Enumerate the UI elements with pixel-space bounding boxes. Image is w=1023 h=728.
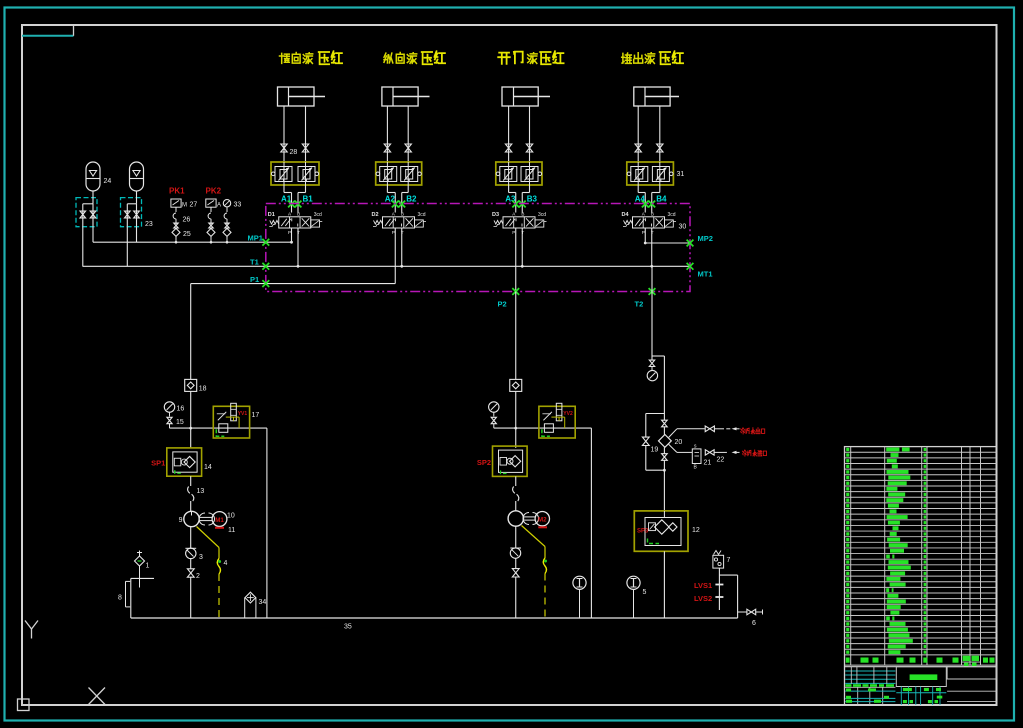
svg-text:M1: M1 xyxy=(215,517,224,524)
svg-text:7: 7 xyxy=(727,557,731,564)
wire level column to tank xyxy=(719,575,737,618)
filter block SP1 (14) xyxy=(151,448,201,476)
cylinder 推出液压缸 xyxy=(634,87,679,106)
unloading relief block (YV2) xyxy=(539,403,575,438)
accumulator shutoff block 1 xyxy=(76,191,97,227)
wire valve4 P to MP2 xyxy=(644,228,647,244)
svg-text:10: 10 xyxy=(227,513,235,520)
pump 9b xyxy=(508,501,523,526)
svg-text:B: B xyxy=(401,212,404,217)
drain valve 6 xyxy=(738,609,763,627)
node B3 xyxy=(527,194,538,203)
svg-text:33: 33 xyxy=(234,201,242,208)
drain line pump1 (4) xyxy=(197,527,228,619)
svg-text:22: 22 xyxy=(717,457,725,464)
shutoff 2b xyxy=(512,558,519,618)
node A4 xyxy=(635,194,646,203)
svg-text:17: 17 xyxy=(252,412,260,419)
test points A4 B4 xyxy=(642,201,655,208)
parts list header (green titles) xyxy=(846,656,995,667)
wire valve4 T to T1 xyxy=(650,228,653,267)
node A2 xyxy=(385,194,396,203)
svg-text:14: 14 xyxy=(204,464,212,471)
label PK2 xyxy=(206,187,222,196)
axis Y symbol xyxy=(25,621,38,639)
svg-text:B: B xyxy=(297,212,300,217)
check block 18 (M2) xyxy=(510,292,522,392)
test points A1 B1 xyxy=(288,201,301,208)
svg-text:8: 8 xyxy=(118,595,122,602)
svg-text:9: 9 xyxy=(179,517,183,524)
check valves on cylinder 2 lines xyxy=(384,144,411,152)
directional valve 4 (D4) xyxy=(621,212,676,235)
thermometer 5 xyxy=(627,576,647,618)
cylinder 纵向液压缸 xyxy=(382,87,430,106)
svg-text:YV2: YV2 xyxy=(563,411,573,417)
svg-text:D3: D3 xyxy=(492,212,499,218)
pump 9 xyxy=(179,501,200,527)
svg-text:2: 2 xyxy=(196,573,200,580)
svg-text:SP3: SP3 xyxy=(637,529,649,535)
test points A2 B2 xyxy=(392,201,405,208)
wire valve3 T to T1 xyxy=(521,228,524,267)
parts list table frame xyxy=(845,447,997,705)
svg-text:5: 5 xyxy=(643,589,647,596)
label PK1 xyxy=(169,187,185,196)
svg-text:YV1: YV1 xyxy=(238,411,248,417)
accumulator shutoff block 2 xyxy=(121,191,142,227)
label LVS1 xyxy=(694,581,712,590)
wire A1/B1 to valve xyxy=(284,185,306,213)
svg-text:31: 31 xyxy=(677,171,685,178)
svg-text:D2: D2 xyxy=(371,212,378,218)
node MP2 xyxy=(687,234,713,247)
wire return drop (M2) xyxy=(590,428,592,618)
counterbalance valve block 2 xyxy=(376,162,422,185)
title block small texts xyxy=(846,684,943,703)
wire valve2 T to T1 xyxy=(400,228,403,267)
check block 18 (M1) xyxy=(185,284,207,393)
svg-text:1: 1 xyxy=(146,563,150,570)
directional valve 3 (D3) xyxy=(492,212,547,235)
svg-text:3cd: 3cd xyxy=(314,212,322,218)
net MP1 line xyxy=(93,241,292,243)
level switch 7 xyxy=(713,551,731,569)
cooler inlet shutoff xyxy=(662,420,668,434)
node P1 xyxy=(250,275,269,287)
filter block SP2 xyxy=(477,446,527,476)
node P2 xyxy=(498,288,520,308)
level sensor column xyxy=(715,568,723,610)
check valves on cylinder 3 lines xyxy=(505,144,532,152)
gauge 16 (M2) xyxy=(489,402,499,428)
node A3 xyxy=(505,194,516,203)
gauge 16 (M1) xyxy=(164,402,184,428)
svg-text:34: 34 xyxy=(259,599,267,606)
manifold boundary box xyxy=(266,204,690,292)
svg-text:T2: T2 xyxy=(635,300,644,309)
title block drawing name xyxy=(910,674,938,680)
svg-text:19: 19 xyxy=(651,447,659,454)
counterbalance valve block 3 xyxy=(496,162,542,185)
cylinder 开门液压缸 xyxy=(502,87,550,106)
heat exchanger 20 xyxy=(659,435,683,448)
wire accumulator block drops xyxy=(83,227,137,267)
label 24 xyxy=(104,178,112,185)
svg-text:MP2: MP2 xyxy=(698,234,713,243)
parts list columns xyxy=(851,447,981,666)
directional valve 2 (D2) xyxy=(371,212,426,235)
wire valve1 P to MP1 xyxy=(290,228,293,243)
accumulator 23 xyxy=(130,162,144,191)
svg-text:PK1: PK1 xyxy=(169,187,185,196)
gauge isolator column 1 xyxy=(172,207,180,243)
svg-text:MT1: MT1 xyxy=(698,270,713,279)
cylinder 横向液压缸 xyxy=(278,87,326,106)
wire T2 down xyxy=(651,292,653,361)
svg-text:25: 25 xyxy=(183,231,191,238)
suction strainer 34 xyxy=(245,592,267,618)
tank port 8 xyxy=(118,578,154,618)
wire pump head line (M1) xyxy=(170,391,267,448)
label 31 xyxy=(677,171,685,178)
svg-text:3: 3 xyxy=(199,554,203,561)
pressure switch PK2 xyxy=(206,199,221,208)
svg-text:3cd: 3cd xyxy=(418,212,426,218)
svg-text:SP2: SP2 xyxy=(477,458,491,467)
svg-text:B3: B3 xyxy=(527,194,538,203)
svg-text:M: M xyxy=(182,202,187,208)
svg-text:26: 26 xyxy=(183,217,191,224)
shutoff on T2 stub xyxy=(649,360,654,370)
node T2 xyxy=(635,288,656,308)
label 26 xyxy=(183,217,191,224)
svg-text:B4: B4 xyxy=(656,194,667,203)
breather 1 xyxy=(135,551,150,588)
unloading relief block (YV1) xyxy=(213,403,249,438)
thermometer a xyxy=(573,576,586,618)
node B1 xyxy=(303,194,314,203)
svg-text:P2: P2 xyxy=(498,300,507,309)
svg-text:P: P xyxy=(642,230,645,235)
svg-text:12: 12 xyxy=(692,527,700,534)
label 冷却水出口 xyxy=(741,428,765,434)
node B4 xyxy=(656,194,667,203)
label 横向液压缸 xyxy=(280,51,343,64)
svg-text:3cd: 3cd xyxy=(668,212,676,218)
svg-text:D4: D4 xyxy=(621,212,629,218)
node MP1 xyxy=(248,234,270,246)
counterbalance valve block 4 xyxy=(627,162,674,185)
svg-text:LVS1: LVS1 xyxy=(694,581,712,590)
node T1 xyxy=(250,258,269,270)
bypass valve 19 xyxy=(642,414,664,471)
gauge isolator column 3 xyxy=(223,207,231,243)
wire cylinder 1 ports xyxy=(284,106,306,162)
svg-text:PK2: PK2 xyxy=(206,187,222,196)
svg-text:3cd: 3cd xyxy=(538,212,546,218)
svg-text:11: 11 xyxy=(228,527,235,534)
title block grid xyxy=(845,667,997,705)
label 23 xyxy=(145,221,153,228)
wire A2/B2 to valve xyxy=(387,185,408,213)
net P1 line xyxy=(191,283,396,285)
parts list entries (green) xyxy=(846,448,926,655)
check valves on cylinder 4 lines xyxy=(635,144,663,152)
svg-text:B: B xyxy=(651,212,654,217)
check valves on cylinder 1 lines xyxy=(281,144,309,152)
svg-text:B: B xyxy=(521,212,524,217)
label 25 xyxy=(183,231,191,238)
svg-text:MP1: MP1 xyxy=(248,234,263,243)
svg-text:B2: B2 xyxy=(406,194,417,203)
label 纵向液压缸 xyxy=(384,51,445,64)
wire pump head line (M2) xyxy=(494,391,592,448)
svg-text:35: 35 xyxy=(344,624,352,631)
svg-text:23: 23 xyxy=(145,221,153,228)
wire T1 to T2 drop xyxy=(651,266,653,291)
parts list rows xyxy=(845,452,997,665)
label 28 xyxy=(290,149,298,156)
motor 10 (M1) xyxy=(199,512,235,534)
motor M2 xyxy=(523,512,550,528)
svg-text:P1: P1 xyxy=(250,275,259,284)
label 冷却水进口 xyxy=(743,450,767,456)
tank return line 35 xyxy=(131,618,738,631)
svg-text:15: 15 xyxy=(176,419,184,426)
axis X symbol xyxy=(89,688,106,705)
svg-text:T1: T1 xyxy=(250,258,259,267)
label LVS2 xyxy=(694,594,712,603)
filter SP3 xyxy=(634,511,700,551)
wire cylinder 3 ports xyxy=(509,106,530,162)
svg-text:SP1: SP1 xyxy=(151,458,165,467)
wire A4/B4 to valve xyxy=(638,185,660,213)
cooler outlet shutoff xyxy=(662,447,668,511)
gauge on T2 xyxy=(647,370,657,380)
wire return drop (M1) xyxy=(266,428,268,618)
svg-text:20: 20 xyxy=(675,439,683,446)
svg-text:28: 28 xyxy=(290,149,298,156)
svg-text:30: 30 xyxy=(679,224,687,231)
svg-text:13: 13 xyxy=(197,488,205,495)
test points A3 B3 xyxy=(512,201,525,208)
shutoff 2 xyxy=(187,559,200,618)
wire valve3 P to P2 xyxy=(515,228,517,291)
origin square xyxy=(18,699,30,711)
cooling water inlet branch xyxy=(669,444,740,471)
svg-text:B1: B1 xyxy=(303,194,314,203)
coupling 13 xyxy=(188,476,205,501)
svg-text:18: 18 xyxy=(199,386,207,393)
accumulator 24 xyxy=(86,162,100,191)
wire A3/B3 to valve xyxy=(509,185,530,213)
wire cylinder 2 ports xyxy=(387,106,408,162)
cooling water outlet branch xyxy=(669,426,740,437)
svg-text:24: 24 xyxy=(104,178,112,185)
svg-text:6: 6 xyxy=(752,620,756,627)
pressure switch 27 xyxy=(171,199,197,208)
gauge 33 xyxy=(223,200,241,209)
svg-text:27: 27 xyxy=(190,201,198,208)
wire valve1 T to T1 xyxy=(297,228,300,267)
label 17 xyxy=(252,412,260,419)
label 开门液压缸 xyxy=(498,51,563,64)
wire cooler feed xyxy=(652,356,664,420)
svg-text:P: P xyxy=(392,230,395,235)
svg-text:M2: M2 xyxy=(538,517,547,524)
corner fold box xyxy=(22,25,74,36)
net MP2 line xyxy=(645,242,690,244)
svg-text:A: A xyxy=(217,202,221,208)
wire valve2 P to P1 xyxy=(394,228,396,283)
svg-text:P: P xyxy=(512,230,515,235)
directional valve 1 (D1) xyxy=(268,212,323,235)
drain line pump2 xyxy=(522,526,548,619)
coupling 13b xyxy=(513,476,519,501)
svg-text:P: P xyxy=(288,230,291,235)
label 30 xyxy=(679,224,687,231)
svg-text:16: 16 xyxy=(177,406,185,413)
label 推出液压缸 xyxy=(622,51,683,64)
wire SP3 to tank xyxy=(663,551,665,618)
counterbalance valve block 1 xyxy=(271,162,319,185)
node A1 xyxy=(281,194,292,203)
net T1 line xyxy=(83,265,691,267)
wire cylinder 4 ports xyxy=(638,106,660,162)
node B2 xyxy=(406,194,417,203)
gauge isolator column 2 xyxy=(207,207,215,243)
svg-text:LVS2: LVS2 xyxy=(694,594,712,603)
gauge 3b xyxy=(510,526,521,558)
svg-text:21: 21 xyxy=(704,460,712,467)
svg-text:4: 4 xyxy=(224,560,228,567)
gauge 3 xyxy=(185,527,203,561)
node MT1 xyxy=(687,263,713,279)
svg-text:D1: D1 xyxy=(268,212,275,218)
